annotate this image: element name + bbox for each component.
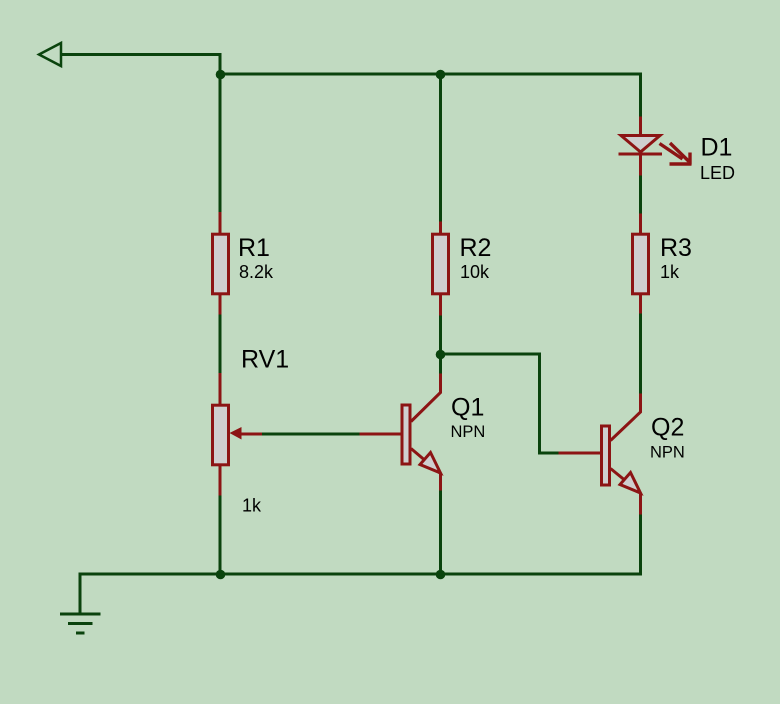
svg-text:NPN: NPN: [451, 423, 486, 441]
svg-text:R1: R1: [238, 234, 270, 262]
svg-text:10k: 10k: [460, 262, 490, 282]
svg-text:R2: R2: [460, 234, 492, 262]
svg-text:1k: 1k: [242, 496, 262, 516]
svg-text:LED: LED: [700, 163, 735, 183]
svg-text:1k: 1k: [660, 262, 680, 282]
svg-text:Q2: Q2: [651, 414, 684, 442]
svg-text:8.2k: 8.2k: [239, 262, 274, 282]
svg-text:R3: R3: [660, 234, 692, 262]
svg-text:Q1: Q1: [451, 394, 484, 422]
svg-text:D1: D1: [701, 134, 733, 162]
svg-text:RV1: RV1: [241, 346, 289, 374]
svg-text:NPN: NPN: [650, 443, 685, 461]
